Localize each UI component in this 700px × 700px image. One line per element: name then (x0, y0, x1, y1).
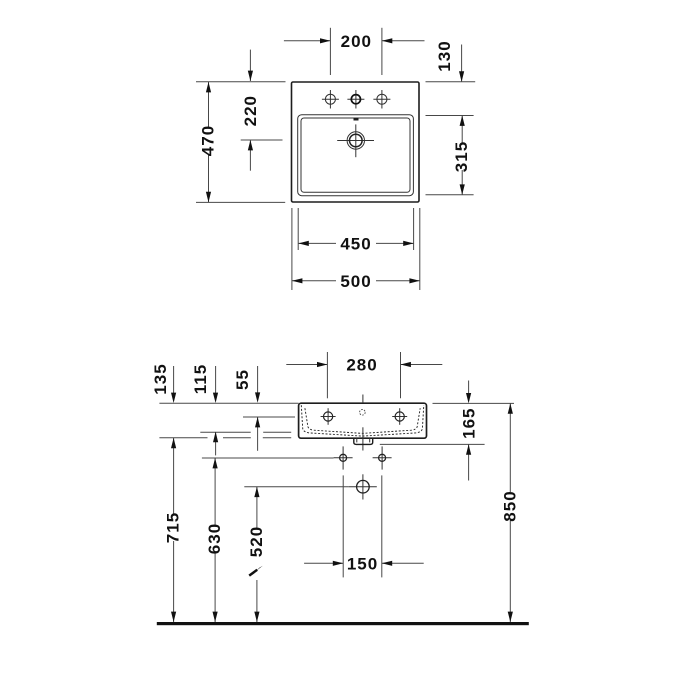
svg-text:165: 165 (460, 408, 479, 439)
svg-text:315: 315 (452, 141, 471, 172)
svg-text:150: 150 (347, 554, 378, 573)
svg-text:135: 135 (151, 363, 170, 394)
svg-text:470: 470 (199, 125, 218, 156)
svg-text:630: 630 (205, 523, 224, 554)
svg-text:450: 450 (340, 234, 371, 253)
svg-text:850: 850 (500, 490, 519, 521)
svg-text:220: 220 (241, 95, 260, 126)
svg-text:55: 55 (233, 369, 252, 390)
svg-text:715: 715 (164, 512, 183, 543)
svg-text:520: 520 (247, 526, 266, 557)
svg-text:130: 130 (435, 40, 454, 71)
svg-text:280: 280 (346, 356, 377, 375)
svg-text:200: 200 (341, 32, 372, 51)
svg-text:500: 500 (340, 272, 371, 291)
svg-text:115: 115 (191, 364, 210, 394)
